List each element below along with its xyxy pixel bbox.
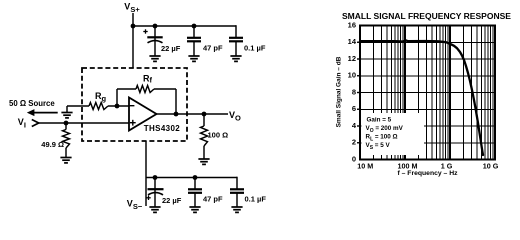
- node VI: [18, 117, 26, 130]
- svg-text:Small Signal Gain – dB: Small Signal Gain – dB: [336, 56, 343, 127]
- svg-text:0.1 µF: 0.1 µF: [244, 44, 266, 53]
- ground C5: [189, 207, 200, 212]
- chart frame: [360, 26, 495, 160]
- EVM boundary (dashed box): [82, 68, 187, 141]
- junction top rail / C2: [192, 24, 197, 29]
- ground C2: [188, 56, 199, 61]
- svg-text:Gain = 5: Gain = 5: [367, 117, 392, 124]
- chart title: [342, 11, 511, 21]
- source symbol (chevron): [32, 120, 39, 127]
- legend box: [362, 113, 425, 155]
- junction output / R2: [202, 112, 207, 117]
- ground C6: [231, 207, 242, 212]
- wire VI to op-amp noninverting input: [39, 122, 130, 124]
- svg-text:0: 0: [352, 154, 356, 163]
- capacitor C1 22 uF (polarized): [143, 26, 180, 56]
- node VS+: [124, 1, 140, 14]
- wire feedback up: [117, 89, 136, 106]
- chart x-axis title: [397, 170, 458, 177]
- junction bottom rail / C4: [153, 175, 158, 180]
- arrow toward source: [27, 109, 58, 116]
- junction bottom rail / C5: [193, 175, 198, 180]
- svg-text:THS4302: THS4302: [144, 124, 180, 133]
- node VS-: [127, 198, 143, 211]
- svg-text:50 Ω Source: 50 Ω Source: [9, 99, 55, 108]
- svg-text:47 pF: 47 pF: [203, 195, 223, 204]
- svg-text:10 M: 10 M: [357, 162, 373, 171]
- wire VS+ decoupling rail: [132, 25, 236, 27]
- capacitor C5 47 pF: [188, 178, 223, 207]
- svg-text:2: 2: [352, 138, 356, 147]
- chart y-axis labels: [348, 20, 357, 163]
- wire VS- stub: [145, 141, 147, 206]
- wire VS- decoupling rail: [146, 177, 237, 179]
- svg-text:SMALL SIGNAL FREQUENCY RESPONS: SMALL SIGNAL FREQUENCY RESPONSE: [342, 11, 511, 21]
- svg-text:0.1 µF: 0.1 µF: [245, 195, 267, 204]
- chart x-axis labels: [357, 162, 498, 171]
- chart axis ticks: [357, 42, 360, 143]
- junction VI / R1: [64, 121, 69, 126]
- resistor Rg: [67, 91, 108, 110]
- capacitor C4 22 uF (polarized): [146, 178, 181, 207]
- ground C3: [230, 56, 241, 61]
- wire feedback down to output: [154, 89, 176, 114]
- svg-text:Rf: Rf: [143, 73, 153, 84]
- ground R2: [198, 159, 209, 164]
- junction top rail / C1: [153, 24, 158, 29]
- svg-text:100 Ω: 100 Ω: [208, 131, 229, 140]
- wire VS+ stub down into EVM box: [132, 13, 134, 68]
- resistor R1 49.9 Ohm: [41, 123, 69, 157]
- svg-text:10: 10: [348, 71, 356, 80]
- op-amp U1 THS4302: [129, 98, 180, 134]
- svg-text:16: 16: [348, 20, 356, 29]
- svg-text:14: 14: [348, 37, 357, 46]
- wire Rg to inverting input: [108, 105, 129, 107]
- wire output: [156, 113, 228, 115]
- node VO: [229, 110, 241, 123]
- svg-text:12: 12: [348, 54, 356, 63]
- junction VS+ rail / stub: [131, 24, 136, 29]
- junction output / feedback: [174, 112, 179, 117]
- capacitor C2 47 pF: [187, 26, 223, 56]
- chart y-axis title: [336, 56, 343, 127]
- label 50 Ohm Source: [9, 99, 55, 108]
- capacitor C6 0.1 uF: [230, 177, 266, 207]
- svg-text:47 pF: 47 pF: [203, 44, 223, 53]
- svg-text:8: 8: [352, 87, 356, 96]
- resistor Rf: [136, 73, 154, 92]
- gain curve: [360, 40, 483, 155]
- svg-text:6: 6: [352, 104, 356, 113]
- svg-text:22 µF: 22 µF: [162, 196, 182, 205]
- ground C1: [149, 56, 160, 61]
- junction inverting input / feedback: [115, 104, 120, 109]
- svg-text:22 µF: 22 µF: [161, 44, 181, 53]
- ground C4: [149, 207, 160, 212]
- capacitor C3 0.1 uF: [229, 25, 266, 55]
- svg-text:10 G: 10 G: [483, 162, 499, 171]
- svg-text:f – Frequency – Hz: f – Frequency – Hz: [397, 170, 458, 177]
- resistor R2 100 Ohm: [201, 114, 229, 159]
- svg-text:49.9 Ω: 49.9 Ω: [41, 140, 64, 149]
- chart gridlines: [360, 26, 495, 160]
- ground R1: [60, 158, 71, 163]
- ground Rg: [61, 106, 72, 118]
